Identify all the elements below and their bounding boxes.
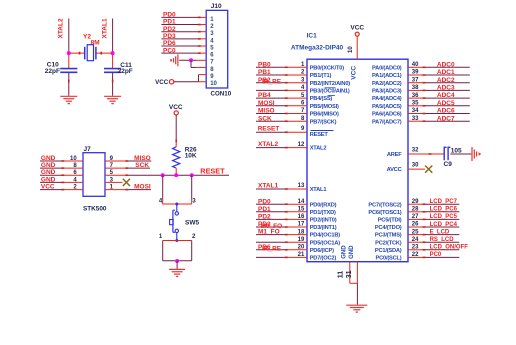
svg-text:PB0: PB0: [258, 61, 271, 68]
svg-text:XTAL1: XTAL1: [310, 187, 327, 193]
svg-text:10: 10: [348, 46, 354, 53]
svg-text:10K: 10K: [185, 153, 197, 160]
svg-text:34: 34: [412, 108, 419, 114]
svg-text:PD6/(ICP): PD6/(ICP): [310, 248, 334, 254]
svg-text:AREF: AREF: [387, 152, 402, 158]
svg-text:29: 29: [412, 199, 419, 205]
svg-text:RESET: RESET: [200, 167, 225, 176]
svg-text:PC4/(TDO): PC4/(TDO): [375, 225, 402, 231]
svg-text:XTAL2: XTAL2: [310, 146, 327, 152]
svg-text:PB7/(SCK): PB7/(SCK): [310, 119, 337, 125]
svg-text:PA1/(ADC1): PA1/(ADC1): [372, 73, 402, 79]
svg-text:MISO: MISO: [134, 155, 151, 162]
svg-text:12: 12: [298, 142, 305, 148]
svg-text:PA3/(ADC3): PA3/(ADC3): [372, 89, 402, 95]
svg-text:C9: C9: [444, 161, 453, 168]
svg-text:PD0: PD0: [258, 198, 271, 205]
svg-text:20: 20: [298, 245, 305, 251]
svg-text:11: 11: [338, 271, 345, 279]
svg-text:RS_LCD: RS_LCD: [430, 237, 455, 243]
svg-text:VCC: VCC: [41, 184, 55, 191]
svg-text:GND: GND: [349, 245, 355, 259]
svg-text:VCC: VCC: [155, 79, 169, 86]
svg-text:SW5: SW5: [185, 220, 199, 227]
svg-text:26: 26: [412, 222, 419, 228]
svg-text:IR_RE: IR_RE: [262, 79, 282, 86]
svg-text:PB3/(OC0/AIN1): PB3/(OC0/AIN1): [310, 89, 350, 95]
svg-text:PC0: PC0: [163, 47, 176, 54]
svg-text:PD2/(INT0): PD2/(INT0): [310, 218, 337, 224]
svg-text:13: 13: [298, 183, 305, 189]
svg-text:GND: GND: [342, 245, 348, 259]
svg-text:31: 31: [346, 270, 353, 278]
svg-text:PC6/(TOSC1): PC6/(TOSC1): [368, 210, 401, 216]
svg-text:10: 10: [70, 156, 77, 162]
svg-text:PB4/(SS): PB4/(SS): [310, 96, 333, 102]
svg-text:LCD_PC6: LCD_PC6: [430, 207, 458, 213]
svg-text:AVCC: AVCC: [387, 167, 402, 173]
svg-text:PB1/(T1): PB1/(T1): [310, 73, 332, 79]
svg-text:PD1: PD1: [258, 206, 271, 213]
svg-text:RESET: RESET: [310, 132, 329, 138]
svg-text:16: 16: [298, 214, 305, 220]
svg-text:PA7/(ADC7): PA7/(ADC7): [372, 119, 402, 125]
svg-text:23: 23: [412, 245, 419, 251]
svg-text:ADC0: ADC0: [437, 61, 455, 68]
svg-text:PD7/(OC2): PD7/(OC2): [310, 256, 337, 262]
svg-text:IR_RE: IR_RE: [262, 246, 282, 253]
svg-text:ADC5: ADC5: [437, 100, 455, 107]
svg-text:PD2: PD2: [163, 26, 176, 33]
svg-text:PC3/(TMS): PC3/(TMS): [375, 233, 402, 239]
svg-text:XTAL1: XTAL1: [258, 183, 278, 190]
svg-text:PD4/(OC1B): PD4/(OC1B): [310, 233, 341, 239]
svg-text:38: 38: [412, 85, 419, 91]
svg-text:10: 10: [210, 81, 217, 87]
svg-text:ADC6: ADC6: [437, 108, 455, 115]
svg-text:PC1/(SDA): PC1/(SDA): [375, 248, 402, 254]
svg-text:ADC4: ADC4: [437, 92, 455, 99]
svg-text:SCK: SCK: [135, 162, 149, 169]
svg-text:PB1: PB1: [258, 69, 271, 76]
svg-text:40: 40: [412, 62, 419, 68]
svg-text:PB6/(MISO): PB6/(MISO): [310, 112, 339, 118]
svg-text:LCD_ON/OFF: LCD_ON/OFF: [430, 245, 469, 251]
svg-text:PD0/(RXD): PD0/(RXD): [310, 202, 337, 208]
svg-text:PC7/(TOSC2): PC7/(TOSC2): [368, 202, 401, 208]
svg-text:XTAL2: XTAL2: [58, 18, 65, 38]
svg-text:CON10: CON10: [211, 90, 232, 97]
svg-text:36: 36: [412, 93, 419, 99]
svg-text:PD1/(TXD): PD1/(TXD): [310, 210, 336, 216]
svg-text:MOSI: MOSI: [258, 100, 275, 107]
svg-text:MISO: MISO: [258, 108, 275, 115]
svg-text:PC0/(SCL): PC0/(SCL): [375, 256, 401, 262]
svg-text:14: 14: [298, 199, 305, 205]
svg-text:E_LCD: E_LCD: [430, 229, 450, 235]
svg-text:PD6: PD6: [163, 40, 176, 47]
svg-text:RESET: RESET: [258, 126, 280, 133]
svg-text:J7: J7: [84, 146, 92, 153]
svg-text:PA2/(ADC2): PA2/(ADC2): [372, 81, 402, 87]
svg-text:PD3: PD3: [163, 33, 176, 40]
svg-text:25: 25: [412, 229, 419, 235]
svg-text:ADC3: ADC3: [437, 85, 455, 92]
svg-text:PD3/(INT1): PD3/(INT1): [310, 225, 337, 231]
svg-text:22: 22: [412, 252, 419, 258]
svg-text:PD0: PD0: [163, 12, 176, 19]
svg-text:VCC: VCC: [351, 66, 358, 80]
svg-text:LCD_PC4: LCD_PC4: [430, 222, 458, 228]
svg-text:ADC1: ADC1: [437, 69, 455, 76]
svg-text:22pF: 22pF: [45, 68, 60, 75]
svg-text:15: 15: [298, 207, 305, 213]
svg-text:8M: 8M: [91, 39, 100, 46]
svg-text:28: 28: [412, 207, 419, 213]
svg-text:STK500: STK500: [83, 205, 107, 212]
svg-text:VCC: VCC: [350, 24, 364, 31]
svg-text:ATMega32-DIP40: ATMega32-DIP40: [291, 44, 344, 51]
svg-text:37: 37: [412, 77, 419, 83]
svg-text:18: 18: [298, 229, 305, 235]
svg-text:SCK: SCK: [258, 115, 272, 122]
svg-text:33: 33: [412, 116, 419, 122]
svg-text:35: 35: [412, 101, 419, 107]
svg-text:PC2/(TCK): PC2/(TCK): [375, 240, 402, 246]
svg-text:IC1: IC1: [307, 32, 318, 39]
svg-text:PB2/(INT2/AIN0): PB2/(INT2/AIN0): [310, 81, 351, 87]
svg-text:19: 19: [298, 237, 305, 243]
svg-text:J10: J10: [211, 3, 222, 10]
svg-text:PB5/(MOSI): PB5/(MOSI): [310, 104, 339, 110]
svg-text:PA5/(ADC5): PA5/(ADC5): [372, 104, 402, 110]
svg-text:GND: GND: [41, 169, 56, 176]
svg-text:PC0: PC0: [430, 252, 442, 258]
svg-text:PA0/(ADC0): PA0/(ADC0): [372, 65, 402, 71]
svg-text:M1_FO: M1_FO: [258, 229, 280, 236]
svg-text:21: 21: [298, 252, 305, 258]
svg-text:PD1: PD1: [163, 19, 176, 26]
svg-text:32: 32: [412, 148, 419, 154]
svg-text:PC5/(TDI): PC5/(TDI): [378, 218, 402, 224]
svg-text:ADC7: ADC7: [437, 115, 455, 122]
svg-text:PA4/(ADC4): PA4/(ADC4): [372, 96, 402, 102]
svg-text:ADC2: ADC2: [437, 77, 455, 84]
svg-text:MOSI: MOSI: [134, 183, 151, 190]
svg-text:VCC: VCC: [169, 104, 183, 111]
svg-text:GND: GND: [41, 176, 56, 183]
svg-text:LCD_PC7: LCD_PC7: [430, 199, 458, 205]
svg-text:27: 27: [412, 214, 419, 220]
svg-text:PD5/(OC1A): PD5/(OC1A): [310, 240, 341, 246]
svg-text:39: 39: [412, 70, 419, 76]
svg-text:24: 24: [412, 237, 419, 243]
svg-text:30: 30: [412, 163, 419, 169]
svg-text:GND: GND: [41, 155, 56, 162]
svg-text:XTAL1: XTAL1: [102, 18, 109, 38]
svg-text:XTAL2: XTAL2: [258, 141, 278, 148]
svg-text:17: 17: [298, 222, 305, 228]
svg-text:GND: GND: [41, 162, 56, 169]
svg-text:22pF: 22pF: [118, 68, 133, 75]
svg-text:PB0/(XCK/T0): PB0/(XCK/T0): [310, 65, 345, 71]
svg-text:PB4: PB4: [258, 92, 271, 99]
svg-text:PA6/(ADC6): PA6/(ADC6): [372, 112, 402, 118]
svg-text:LCD_PC5: LCD_PC5: [430, 214, 458, 220]
svg-text:PD2: PD2: [258, 214, 271, 221]
